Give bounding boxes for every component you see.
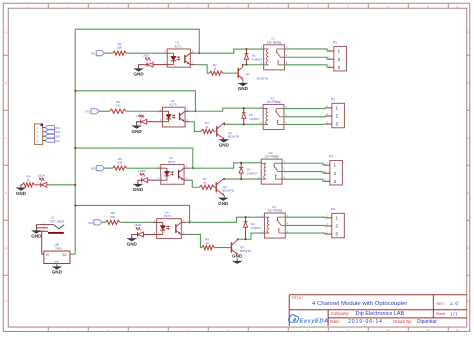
svg-text:2019-06-14: 2019-06-14 xyxy=(348,319,383,325)
wire relay to P4 pin3 xyxy=(285,233,325,234)
wire LED to ground channel 3 xyxy=(138,180,142,184)
svg-text:10: 10 xyxy=(387,5,390,9)
svg-text:330: 330 xyxy=(117,46,122,50)
svg-text:GND: GND xyxy=(16,191,27,196)
wire relay to P3 pin3 xyxy=(282,179,324,181)
wire collector to node channel 3 xyxy=(223,178,225,179)
wire opto pin4 to relay coil channel 3 xyxy=(189,163,262,168)
svg-text:1N4007: 1N4007 xyxy=(247,171,258,175)
port flag IN4 header side xyxy=(45,139,54,143)
svg-text:Q1: Q1 xyxy=(246,72,250,76)
node collector junction channel 3 xyxy=(223,178,225,180)
resistor R4 1k xyxy=(201,129,214,133)
wire regulator VO to bus xyxy=(70,253,75,255)
svg-text:BC547B: BC547B xyxy=(257,76,268,80)
node diode top junction channel 4 xyxy=(245,216,247,218)
wire opto pin3 to base resistor channel 4 xyxy=(186,234,202,247)
wire node to relay coil channel 3 xyxy=(224,178,261,180)
ground LED channel 4 xyxy=(127,238,136,241)
svg-text:12: 12 xyxy=(456,5,459,9)
svg-text:12v Relay: 12v Relay xyxy=(267,40,282,44)
svg-text:330: 330 xyxy=(117,161,122,165)
svg-text:GND: GND xyxy=(132,129,143,134)
svg-text:IN2: IN2 xyxy=(86,110,91,114)
svg-text:C: C xyxy=(5,136,7,140)
wire emitter to ground channel 4 xyxy=(236,253,239,256)
transistor Q1 BC547B xyxy=(237,68,239,78)
port flag IN3 header side xyxy=(45,134,54,138)
wire node to relay coil channel 4 xyxy=(238,233,265,239)
resistor R5 330 xyxy=(113,166,127,170)
svg-text:IN1: IN1 xyxy=(91,52,96,56)
node rail drop junction channel 4 xyxy=(189,221,191,223)
wire resistor to opto pin1 channel 4 xyxy=(120,221,153,223)
resistor R3 330 xyxy=(110,109,127,113)
node rail drop junction channel 3 xyxy=(192,167,194,169)
wire input to resistor channel 1 xyxy=(104,52,112,54)
diode D4 1N4007 flyback xyxy=(245,217,247,222)
wire resistor to ground power LED xyxy=(21,185,22,188)
wire +5V vertical bus xyxy=(74,29,76,254)
node bus junction channel 2 xyxy=(74,90,76,92)
wire VCC rail channel 2 xyxy=(75,91,195,111)
wire opto pin3 to base resistor channel 3 xyxy=(189,180,200,187)
wire relay to P4 pin2 xyxy=(285,224,325,227)
svg-text:C: C xyxy=(467,136,469,140)
node diode top junction channel 1 xyxy=(245,48,247,50)
wire opto pin4 to relay coil channel 1 xyxy=(195,49,264,53)
resistor R2 1k xyxy=(209,71,223,75)
svg-text:EasyEDA: EasyEDA xyxy=(299,318,328,324)
node diode bottom junction channel 3 xyxy=(240,178,242,180)
svg-text:GND: GND xyxy=(133,72,144,77)
wire relay to P2 pin3 xyxy=(284,123,326,125)
wire VCC rail channel 3 xyxy=(75,148,193,168)
svg-text:IN2: IN2 xyxy=(55,130,60,134)
wire collector to node channel 2 xyxy=(223,123,225,125)
svg-text:E: E xyxy=(5,246,7,250)
wire node to relay coil channel 2 xyxy=(224,123,263,125)
svg-text:E: E xyxy=(467,246,469,250)
ground LED channel 1 xyxy=(134,69,143,72)
svg-text:TITLE:: TITLE: xyxy=(291,296,302,300)
wire LED to ground channel 1 xyxy=(139,65,148,69)
svg-text:GND: GND xyxy=(133,187,144,192)
svg-text:B: B xyxy=(467,81,469,85)
svg-text:817C: 817C xyxy=(170,103,178,107)
wire LED to opto pin2 channel 1 xyxy=(153,64,167,66)
svg-text:7805: 7805 xyxy=(55,247,62,251)
title block lines xyxy=(289,294,467,296)
svg-text:GND: GND xyxy=(127,241,138,246)
svg-text:817C: 817C xyxy=(164,214,172,218)
svg-text:1k: 1k xyxy=(203,181,207,185)
wire header pin 1 xyxy=(43,126,46,128)
wire VCC rail channel 4 xyxy=(75,205,189,222)
svg-text:817C: 817C xyxy=(168,160,176,164)
wire collector to node channel 4 xyxy=(237,238,239,241)
wire LED to opto pin2 channel 3 xyxy=(148,179,161,181)
wire collector to node channel 1 xyxy=(242,65,244,67)
wire node to relay coil channel 1 xyxy=(243,64,264,66)
wire VCC rail channel 1 xyxy=(75,29,199,53)
svg-text:11: 11 xyxy=(427,328,430,332)
port flag IN2 header side xyxy=(45,130,54,134)
svg-text:330: 330 xyxy=(110,215,115,219)
svg-text:1k: 1k xyxy=(205,125,209,129)
svg-text:GND: GND xyxy=(232,254,243,259)
node diode top junction channel 2 xyxy=(243,107,245,109)
node diode bottom junction channel 2 xyxy=(243,123,245,125)
svg-text:817C: 817C xyxy=(174,44,182,48)
svg-text:1k: 1k xyxy=(27,178,31,182)
svg-text:B: B xyxy=(5,81,7,85)
wire opto pin3 to base resistor channel 1 xyxy=(195,65,209,74)
transistor Q4 BC547B xyxy=(230,242,232,252)
svg-text:A: A xyxy=(5,30,7,34)
ground regulator xyxy=(53,267,62,270)
node bus junction channel 3 xyxy=(74,147,76,149)
svg-text:BC547B: BC547B xyxy=(223,188,234,192)
wire base resistor to transistor channel 1 xyxy=(223,72,238,74)
wire resistor to opto pin1 channel 1 xyxy=(126,52,163,54)
wire resistor to opto pin1 channel 3 xyxy=(127,167,157,169)
svg-text:VI: VI xyxy=(46,253,49,257)
wire header pin 3 xyxy=(43,135,46,137)
node rail drop junction channel 2 xyxy=(194,110,196,112)
svg-text:LED4: LED4 xyxy=(38,173,46,177)
wire LED to opto pin2 channel 2 xyxy=(147,121,163,123)
wire input to resistor channel 3 xyxy=(104,167,112,169)
svg-text:1k: 1k xyxy=(213,67,217,71)
wire relay to P1 pin1 xyxy=(284,49,327,51)
node diode bottom junction channel 1 xyxy=(245,64,247,66)
resistor R6 330 xyxy=(105,220,120,224)
wire header pin 4 xyxy=(43,139,46,141)
svg-text:GND: GND xyxy=(238,86,249,91)
wire relay to P4 pin1 xyxy=(285,216,325,219)
wire opto pin3 to base resistor channel 2 xyxy=(190,122,202,132)
svg-text:BC547B: BC547B xyxy=(240,249,251,253)
svg-text:REV:: REV: xyxy=(437,302,445,306)
EasyEDA logo xyxy=(289,315,299,322)
wire input to resistor channel 2 xyxy=(99,110,109,112)
diode D1 1N4007 flyback xyxy=(245,49,247,54)
svg-text:Company:: Company: xyxy=(331,311,350,316)
connector P5 input header xyxy=(35,124,43,145)
svg-text:4 Channel Module with Optocoup: 4 Channel Module with Optocoupler xyxy=(312,301,407,307)
svg-text:GND: GND xyxy=(218,201,229,206)
svg-text:Date:: Date: xyxy=(330,319,340,324)
wire relay to P3 pin1 xyxy=(282,163,324,165)
svg-text:LED1: LED1 xyxy=(143,53,151,57)
svg-text:Sheet:: Sheet: xyxy=(436,312,446,316)
svg-text:LED5: LED5 xyxy=(134,223,142,227)
node bus junction channel 4 xyxy=(74,204,76,206)
svg-text:Dip Electronics LAB: Dip Electronics LAB xyxy=(356,311,405,317)
svg-text:IN4: IN4 xyxy=(88,221,93,225)
ground power LED xyxy=(17,188,26,191)
wire header pin 2 xyxy=(43,131,46,133)
svg-text:P2: P2 xyxy=(331,97,335,101)
svg-text:D: D xyxy=(467,191,469,195)
svg-text:330: 330 xyxy=(115,104,120,108)
wire LED to opto pin2 channel 4 xyxy=(144,233,157,235)
wire input to resistor channel 4 xyxy=(102,221,105,223)
node collector junction channel 4 xyxy=(237,238,239,240)
node rail drop junction channel 1 xyxy=(198,52,200,54)
svg-text:Drawn By:: Drawn By: xyxy=(393,319,412,324)
svg-text:GND: GND xyxy=(219,143,230,148)
wire LED to ground channel 2 xyxy=(137,122,141,126)
ground transistor channel 3 xyxy=(219,198,228,201)
diode D3 1N4007 flyback xyxy=(240,163,242,168)
resistor R7 1k xyxy=(199,185,214,189)
svg-text:1N4007: 1N4007 xyxy=(251,226,262,230)
svg-text:1N4007: 1N4007 xyxy=(252,58,263,62)
ground transistor channel 1 xyxy=(239,83,248,86)
port flag IN1 header side xyxy=(45,126,54,130)
svg-text:DC Jack: DC Jack xyxy=(50,220,64,224)
svg-text:1N4007: 1N4007 xyxy=(249,117,260,121)
node collector junction channel 1 xyxy=(242,64,244,66)
svg-text:P4: P4 xyxy=(331,207,335,211)
svg-text:1k: 1k xyxy=(206,241,210,245)
wire emitter to ground channel 1 xyxy=(242,79,244,83)
svg-text:P1: P1 xyxy=(333,41,337,45)
wire relay to P2 pin1 xyxy=(284,107,326,110)
wire base resistor to transistor channel 3 xyxy=(214,186,216,188)
wire emitter to ground channel 2 xyxy=(223,138,225,140)
node diode bottom junction channel 4 xyxy=(245,238,247,240)
svg-text:12v Relay: 12v Relay xyxy=(266,100,281,104)
wire DC jack to regulator VI xyxy=(42,231,44,254)
wire resistor to opto pin1 channel 2 xyxy=(126,110,158,112)
svg-text:A: A xyxy=(467,30,469,34)
svg-text:P3: P3 xyxy=(329,155,333,159)
ground LED channel 2 xyxy=(132,126,141,129)
wire opto pin4 to relay coil channel 4 xyxy=(186,217,265,222)
svg-text:IN4: IN4 xyxy=(55,139,60,143)
svg-text:LED3: LED3 xyxy=(138,169,146,173)
wire relay to P1 pin3 xyxy=(284,65,327,67)
svg-text:Dipankar: Dipankar xyxy=(417,319,437,325)
resistor R8 1k xyxy=(202,245,215,249)
wire power LED to resistor xyxy=(34,184,40,186)
svg-text:D: D xyxy=(5,191,7,195)
wire base resistor to transistor channel 4 xyxy=(214,247,231,249)
node diode top junction channel 3 xyxy=(240,162,242,164)
resistor R9 1k xyxy=(22,183,34,187)
resistor R1 330 xyxy=(113,51,127,55)
svg-text:1/1: 1/1 xyxy=(450,311,458,316)
wire relay to P2 pin2 xyxy=(284,115,326,118)
wire relay to P1 pin2 xyxy=(284,57,327,59)
svg-text:BC547B: BC547B xyxy=(228,135,239,139)
wire regulator GND xyxy=(56,264,58,267)
wire bus to power LED xyxy=(47,184,76,186)
svg-text:GND: GND xyxy=(31,234,42,239)
wire DC jack to ground xyxy=(36,225,39,231)
transistor Q3 BC547B xyxy=(215,182,217,192)
wire base resistor to transistor channel 2 xyxy=(214,130,217,132)
node power LED junction xyxy=(74,184,76,186)
ground DC jack xyxy=(32,231,41,234)
svg-text:1.0: 1.0 xyxy=(450,301,459,307)
ground LED channel 3 xyxy=(134,184,143,187)
svg-text:GND: GND xyxy=(52,270,63,275)
transistor Q2 BC547B xyxy=(216,126,218,136)
ground transistor channel 2 xyxy=(220,140,229,143)
svg-text:12: 12 xyxy=(456,328,459,332)
wire emitter to ground channel 3 xyxy=(223,195,225,198)
wire relay to P3 pin2 xyxy=(282,172,324,174)
svg-text:10: 10 xyxy=(387,328,390,332)
svg-text:VO: VO xyxy=(62,253,67,257)
wire LED to ground channel 4 xyxy=(132,234,138,238)
node collector junction channel 2 xyxy=(223,123,225,125)
svg-text:12v Relay: 12v Relay xyxy=(267,208,282,212)
svg-text:IN3: IN3 xyxy=(91,167,96,171)
diode D2 1N4007 flyback xyxy=(243,108,245,113)
svg-text:11: 11 xyxy=(427,5,430,9)
wire opto pin4 to relay coil channel 2 xyxy=(190,108,264,111)
svg-text:GND: GND xyxy=(55,262,60,264)
svg-text:12v Relay: 12v Relay xyxy=(264,155,279,159)
